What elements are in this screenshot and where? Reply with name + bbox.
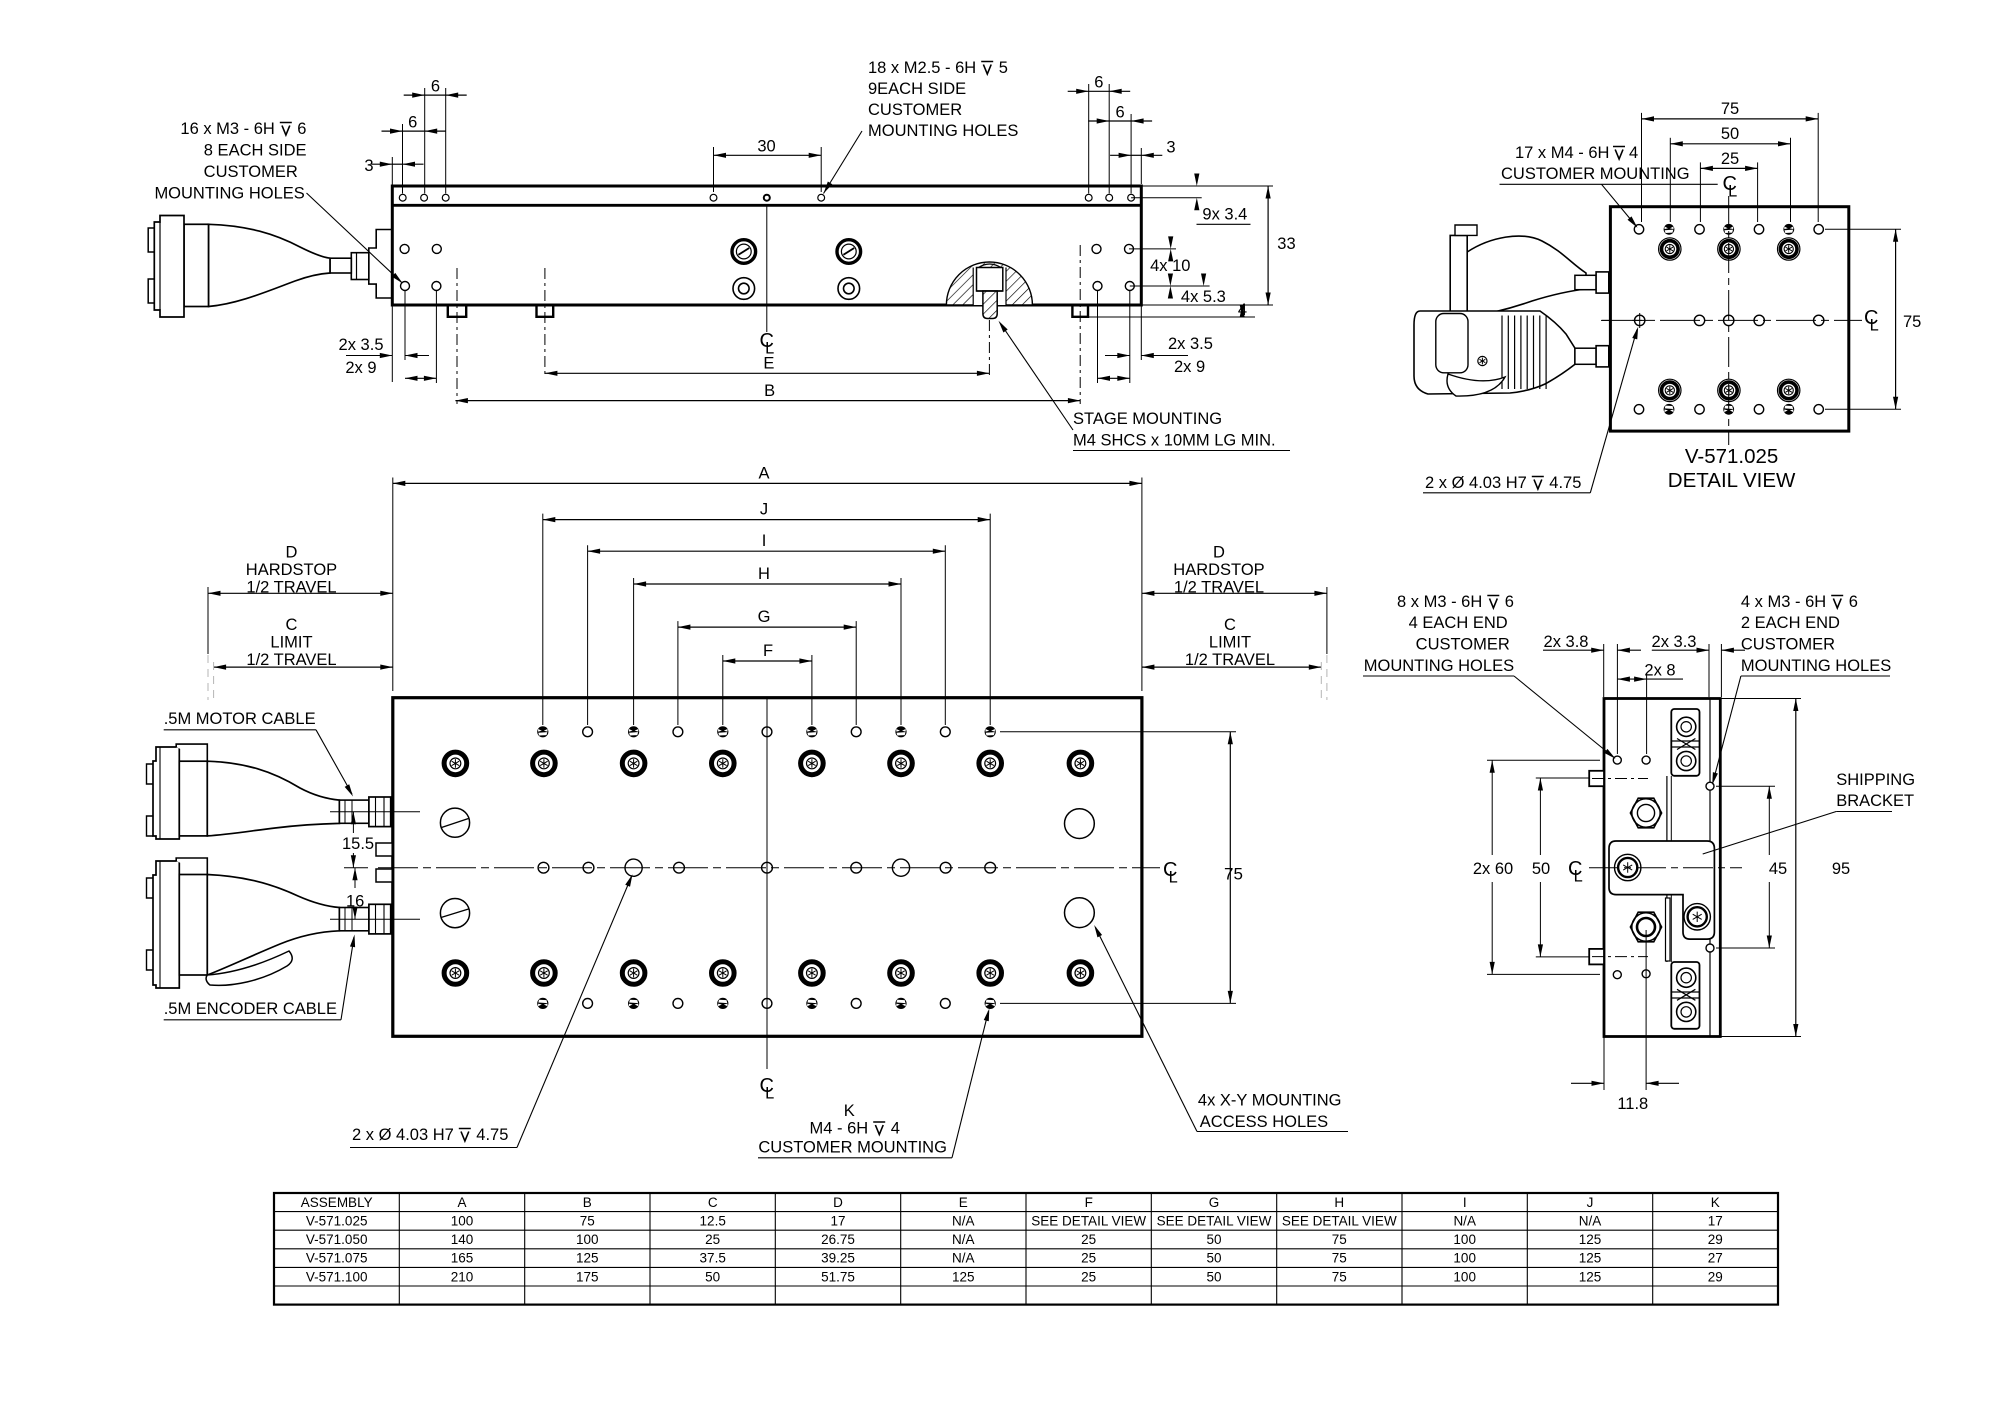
svg-text:2x 9: 2x 9 <box>1174 358 1205 376</box>
svg-text:D: D <box>286 544 298 562</box>
svg-text:25: 25 <box>1721 150 1739 168</box>
svg-text:SEE DETAIL VIEW: SEE DETAIL VIEW <box>1157 1214 1272 1229</box>
svg-text:C: C <box>708 1195 718 1210</box>
svg-text:L: L <box>1728 182 1737 200</box>
svg-text:25: 25 <box>1081 1232 1096 1247</box>
end view: rail lines <box>1666 776 1668 962</box>
svg-text:9EACH SIDE: 9EACH SIDE <box>868 80 966 98</box>
svg-text:210: 210 <box>451 1269 474 1284</box>
plan view: dowel holes <box>625 859 642 876</box>
detail view: centerlines <box>1728 196 1730 445</box>
plan view: motor cable connector <box>153 747 179 839</box>
svg-text:140: 140 <box>451 1232 474 1247</box>
svg-text:L: L <box>1169 868 1178 886</box>
svg-text:I: I <box>762 532 767 550</box>
end view: dim 11.8 <box>1603 1037 1605 1091</box>
svg-text:75: 75 <box>1332 1232 1347 1247</box>
svg-text:100: 100 <box>451 1214 474 1229</box>
svg-text:17: 17 <box>830 1214 845 1229</box>
plan view: socket screw rows <box>444 752 467 775</box>
svg-text:H: H <box>758 565 770 583</box>
svg-text:A: A <box>758 465 769 483</box>
svg-text:CUSTOMER: CUSTOMER <box>1741 636 1835 654</box>
svg-text:L: L <box>1574 867 1583 885</box>
svg-text:A: A <box>457 1195 466 1210</box>
svg-text:STAGE MOUNTING: STAGE MOUNTING <box>1073 410 1222 428</box>
svg-text:.5M ENCODER CABLE: .5M ENCODER CABLE <box>164 1000 337 1018</box>
svg-text:25: 25 <box>1081 1251 1096 1266</box>
svg-text:G: G <box>1209 1195 1220 1210</box>
end view: left foot protrusions <box>1589 771 1604 786</box>
svg-text:2x 60: 2x 60 <box>1473 860 1513 878</box>
detail view: center hole row <box>1635 315 1645 325</box>
svg-text:B: B <box>583 1195 592 1210</box>
svg-text:HARDSTOP: HARDSTOP <box>246 561 337 579</box>
svg-text:125: 125 <box>1579 1251 1602 1266</box>
svg-text:4 x M3 - 6H: 4 x M3 - 6H <box>1741 593 1826 611</box>
svg-text:6: 6 <box>1505 593 1514 611</box>
svg-text:39.25: 39.25 <box>821 1251 855 1266</box>
plan view: encoder cable connector <box>153 861 179 988</box>
svg-text:4.75: 4.75 <box>1549 474 1581 492</box>
side view: top row mounting holes 9x3.4 <box>399 194 406 201</box>
plan view: vertical centerline <box>766 698 768 1069</box>
svg-text:5: 5 <box>999 59 1008 77</box>
svg-text:G: G <box>758 608 771 626</box>
svg-text:4x X-Y MOUNTING: 4x X-Y MOUNTING <box>1198 1092 1342 1110</box>
svg-text:H: H <box>1334 1195 1344 1210</box>
side view: dim 30 <box>713 147 715 192</box>
plan view: dim H <box>633 578 635 725</box>
svg-text:50: 50 <box>705 1269 720 1284</box>
svg-text:4: 4 <box>1629 144 1638 162</box>
svg-text:125: 125 <box>1579 1232 1602 1247</box>
svg-text:6: 6 <box>1849 593 1858 611</box>
svg-text:SHIPPING: SHIPPING <box>1836 771 1915 789</box>
svg-text:3: 3 <box>1166 139 1175 157</box>
side view: dim E <box>545 372 990 374</box>
detail view: socket screws top <box>1659 238 1681 260</box>
side view: feet <box>448 305 466 317</box>
svg-text:100: 100 <box>1453 1269 1476 1284</box>
svg-text:C: C <box>286 616 298 634</box>
svg-text:K: K <box>1711 1195 1720 1210</box>
svg-text:CUSTOMER: CUSTOMER <box>204 163 298 181</box>
svg-text:33: 33 <box>1277 235 1295 253</box>
svg-text:F: F <box>1085 1195 1093 1210</box>
svg-text:E: E <box>959 1195 968 1210</box>
svg-text:11.8: 11.8 <box>1617 1095 1648 1113</box>
svg-text:V-571.100: V-571.100 <box>306 1269 368 1284</box>
svg-text:4x 5.3: 4x 5.3 <box>1181 288 1226 306</box>
svg-text:6: 6 <box>1094 74 1103 92</box>
svg-text:50: 50 <box>1206 1251 1221 1266</box>
svg-text:N/A: N/A <box>952 1214 975 1229</box>
svg-text:75: 75 <box>1332 1269 1347 1284</box>
end view: dim 45 <box>1716 785 1775 787</box>
side view: centerline and CL <box>766 205 768 332</box>
svg-text:2x 9: 2x 9 <box>345 359 376 377</box>
svg-text:N/A: N/A <box>1453 1214 1476 1229</box>
svg-text:B: B <box>764 382 775 400</box>
svg-text:1/2 TRAVEL: 1/2 TRAVEL <box>246 651 336 669</box>
svg-text:4 EACH END: 4 EACH END <box>1409 614 1508 632</box>
svg-text:N/A: N/A <box>952 1251 975 1266</box>
svg-text:12.5: 12.5 <box>700 1214 726 1229</box>
svg-text:I: I <box>1463 1195 1467 1210</box>
detail view: bottom hole row <box>1634 405 1643 414</box>
svg-text:4: 4 <box>1238 301 1247 319</box>
svg-text:4x 10: 4x 10 <box>1150 257 1190 275</box>
svg-text:CUSTOMER: CUSTOMER <box>868 101 962 119</box>
svg-text:N/A: N/A <box>952 1232 975 1247</box>
plan view: dim I <box>587 545 589 725</box>
svg-text:HARDSTOP: HARDSTOP <box>1173 561 1264 579</box>
end view: dim 2x60 <box>1487 759 1600 761</box>
plan view: encoder handle <box>206 951 292 985</box>
svg-text:E: E <box>763 355 774 373</box>
svg-text:L: L <box>1870 316 1879 334</box>
plan view: stage edge jack standoffs <box>376 843 392 856</box>
svg-text:17 x M4 - 6H: 17 x M4 - 6H <box>1515 144 1609 162</box>
svg-text:27: 27 <box>1708 1251 1723 1266</box>
svg-text:6: 6 <box>408 114 417 132</box>
svg-text:2 EACH END: 2 EACH END <box>1741 614 1840 632</box>
svg-text:100: 100 <box>576 1232 599 1247</box>
plan view: dim 16 <box>354 868 356 888</box>
svg-text:6: 6 <box>431 78 440 96</box>
svg-text:ACCESS HOLES: ACCESS HOLES <box>1200 1113 1328 1131</box>
end view: shipping bracket <box>1609 841 1714 939</box>
plan view: X-Y access holes <box>1065 809 1095 839</box>
svg-text:50: 50 <box>1206 1269 1221 1284</box>
svg-text:175: 175 <box>576 1269 599 1284</box>
svg-text:75: 75 <box>1332 1251 1347 1266</box>
side view: dim 3 right <box>1140 148 1142 184</box>
side view: dim 33 <box>1141 304 1273 306</box>
svg-text:75: 75 <box>1721 100 1739 118</box>
svg-text:51.75: 51.75 <box>821 1269 855 1284</box>
svg-text:3: 3 <box>364 157 373 175</box>
side view: dim 6 left upper <box>424 88 426 194</box>
plan view: top slotted hole row <box>537 726 548 737</box>
svg-text:2x 3.3: 2x 3.3 <box>1652 633 1697 651</box>
svg-text:9x 3.4: 9x 3.4 <box>1202 206 1247 224</box>
svg-text:V-571.050: V-571.050 <box>306 1232 368 1247</box>
svg-text:18 x M2.5 - 6H: 18 x M2.5 - 6H <box>868 59 976 77</box>
svg-text:8 x M3 - 6H: 8 x M3 - 6H <box>1397 593 1482 611</box>
plan view: horizontal centerline <box>378 867 1160 869</box>
svg-text:17: 17 <box>1708 1214 1723 1229</box>
side view: slotted setscrews <box>732 240 756 264</box>
side view: lower holes <box>401 282 410 291</box>
end view: upper hex standoff <box>1630 798 1661 828</box>
svg-text:ASSEMBLY: ASSEMBLY <box>301 1195 373 1210</box>
svg-text:SEE DETAIL VIEW: SEE DETAIL VIEW <box>1282 1214 1397 1229</box>
svg-text:LIMIT: LIMIT <box>270 634 312 652</box>
detail view: dim 75 top <box>1641 113 1643 222</box>
plan view: slotted cable gland circles <box>440 808 469 837</box>
side view: 4x 5.3 callout <box>1130 285 1210 287</box>
svg-text:V-571.025: V-571.025 <box>306 1214 368 1229</box>
plan view: cable axis lines <box>330 811 420 813</box>
side view: dim 2x3.5 left <box>391 305 393 382</box>
svg-text:DETAIL VIEW: DETAIL VIEW <box>1668 469 1796 492</box>
svg-text:MOUNTING HOLES: MOUNTING HOLES <box>1364 657 1514 675</box>
svg-text:D: D <box>1213 544 1225 562</box>
svg-text:125: 125 <box>952 1269 975 1284</box>
svg-text:29: 29 <box>1708 1269 1723 1284</box>
svg-text:V-571.075: V-571.075 <box>306 1251 368 1266</box>
svg-text:95: 95 <box>1832 860 1850 878</box>
side view: 9x 3.4 callout <box>1141 185 1273 187</box>
end view: lower hex standoff <box>1630 912 1661 942</box>
svg-text:30: 30 <box>757 138 775 156</box>
side view: dim 2x3.5 right <box>1140 305 1142 360</box>
plan view: dim G <box>677 621 679 725</box>
svg-text:J: J <box>760 501 768 519</box>
svg-text:J: J <box>1587 1195 1594 1210</box>
svg-text:2x 3.8: 2x 3.8 <box>1544 633 1589 651</box>
svg-text:2x 3.5: 2x 3.5 <box>339 336 384 354</box>
svg-text:37.5: 37.5 <box>700 1251 726 1266</box>
svg-text:CUSTOMER MOUNTING: CUSTOMER MOUNTING <box>1501 165 1690 183</box>
svg-text:L: L <box>765 1084 774 1102</box>
svg-text:50: 50 <box>1721 125 1739 143</box>
svg-text:6: 6 <box>297 120 306 138</box>
side view: feet centerlines <box>456 268 458 404</box>
end view: dim 95 <box>1720 698 1801 700</box>
svg-text:M4 SHCS x 10MM LG MIN.: M4 SHCS x 10MM LG MIN. <box>1073 432 1276 450</box>
svg-text:2x 8: 2x 8 <box>1644 662 1675 680</box>
svg-text:SEE DETAIL VIEW: SEE DETAIL VIEW <box>1031 1214 1146 1229</box>
side view: dim B <box>455 400 1080 402</box>
svg-text:75: 75 <box>580 1214 595 1229</box>
svg-text:M4 - 6H: M4 - 6H <box>810 1120 869 1138</box>
end view: dim 50 <box>1536 777 1590 779</box>
svg-text:75: 75 <box>1224 865 1243 884</box>
svg-text:25: 25 <box>1081 1269 1096 1284</box>
side view: dim 6 right upper <box>1088 84 1090 194</box>
svg-text:2x 3.5: 2x 3.5 <box>1168 335 1213 353</box>
svg-text:D: D <box>833 1195 843 1210</box>
side view: filled center hole <box>763 194 771 202</box>
side view: dim 2x9 right <box>1098 377 1130 379</box>
svg-text:50: 50 <box>1532 860 1550 878</box>
svg-text:LIMIT: LIMIT <box>1209 634 1251 652</box>
table: assembly dimension table <box>274 1193 1778 1305</box>
svg-text:26.75: 26.75 <box>821 1232 855 1247</box>
svg-text:1/2 TRAVEL: 1/2 TRAVEL <box>1185 651 1275 669</box>
svg-text:100: 100 <box>1453 1251 1476 1266</box>
svg-text:CUSTOMER: CUSTOMER <box>1416 636 1510 654</box>
svg-text:MOUNTING HOLES: MOUNTING HOLES <box>154 185 304 203</box>
side view: ring holes below setscrews <box>733 278 755 300</box>
detail view: body <box>1610 207 1848 431</box>
plan view: dim J <box>542 514 544 725</box>
svg-text:F: F <box>763 642 773 660</box>
detail view: dim 50 top <box>1669 138 1671 222</box>
svg-text:MOUNTING HOLES: MOUNTING HOLES <box>868 122 1018 140</box>
side view: dim 2x9 left <box>405 377 436 379</box>
end view: top clamp bracket <box>1671 709 1699 776</box>
svg-text:N/A: N/A <box>1579 1214 1602 1229</box>
svg-text:K: K <box>844 1102 855 1120</box>
detail view: top hole row <box>1634 225 1643 234</box>
end view: corner holes <box>1613 756 1621 764</box>
plan view: dim 75 right <box>1000 731 1236 733</box>
svg-text:50: 50 <box>1206 1232 1221 1247</box>
svg-text:15.5: 15.5 <box>342 835 374 853</box>
plan view: stage body <box>393 698 1142 1037</box>
svg-text:100: 100 <box>1453 1232 1476 1247</box>
svg-text:125: 125 <box>576 1251 599 1266</box>
svg-text:.5M MOTOR CABLE: .5M MOTOR CABLE <box>164 710 316 728</box>
svg-text:25: 25 <box>705 1232 720 1247</box>
svg-text:2 x Ø 4.03 H7: 2 x Ø 4.03 H7 <box>1425 474 1527 492</box>
plan view: dim F <box>722 655 724 725</box>
plan view: dim 15.5 <box>352 812 354 833</box>
svg-text:16 x M3 - 6H: 16 x M3 - 6H <box>180 120 274 138</box>
svg-text:165: 165 <box>451 1251 474 1266</box>
plan view: dim A <box>392 478 394 692</box>
svg-text:125: 125 <box>1579 1269 1602 1284</box>
svg-text:BRACKET: BRACKET <box>1836 792 1914 810</box>
side view: 4x 10 callout <box>1129 248 1176 250</box>
plan view: bottom slotted hole row <box>537 998 548 1009</box>
side view: dim 4 <box>1088 316 1255 318</box>
detail view: dim 75 right <box>1825 228 1901 230</box>
end view: body <box>1604 699 1720 1037</box>
svg-text:4.75: 4.75 <box>476 1126 508 1144</box>
side view: dim 6 left lower <box>402 124 404 194</box>
svg-text:V-571.025: V-571.025 <box>1685 445 1778 468</box>
side view: dim 6 right lower <box>1130 114 1132 194</box>
side view: mid holes <box>400 244 409 253</box>
svg-text:2 x Ø 4.03 H7: 2 x Ø 4.03 H7 <box>352 1126 454 1144</box>
detail view: socket screws bottom <box>1659 379 1681 401</box>
svg-text:MOUNTING HOLES: MOUNTING HOLES <box>1741 657 1891 675</box>
detail view: dim 25 top <box>1699 162 1701 222</box>
end view: bottom clamp bracket <box>1671 962 1699 1029</box>
plan view: center hole row <box>538 862 549 873</box>
side view: hatched boss with stage mounting screw <box>946 262 1032 305</box>
svg-text:4: 4 <box>891 1120 900 1138</box>
svg-text:16: 16 <box>346 893 364 911</box>
side view: stage body <box>392 186 1141 305</box>
end view: centerline <box>1589 867 1742 869</box>
detail view: connectors <box>1467 236 1586 317</box>
svg-text:8 EACH SIDE: 8 EACH SIDE <box>204 142 307 160</box>
svg-text:45: 45 <box>1769 860 1787 878</box>
svg-text:C: C <box>1224 616 1236 634</box>
svg-text:29: 29 <box>1708 1232 1723 1247</box>
svg-text:75: 75 <box>1903 313 1921 331</box>
side view: dim 3 left <box>391 157 393 185</box>
svg-text:CUSTOMER MOUNTING: CUSTOMER MOUNTING <box>758 1139 947 1157</box>
side view: motor connector left <box>369 230 393 299</box>
svg-text:6: 6 <box>1116 103 1125 121</box>
